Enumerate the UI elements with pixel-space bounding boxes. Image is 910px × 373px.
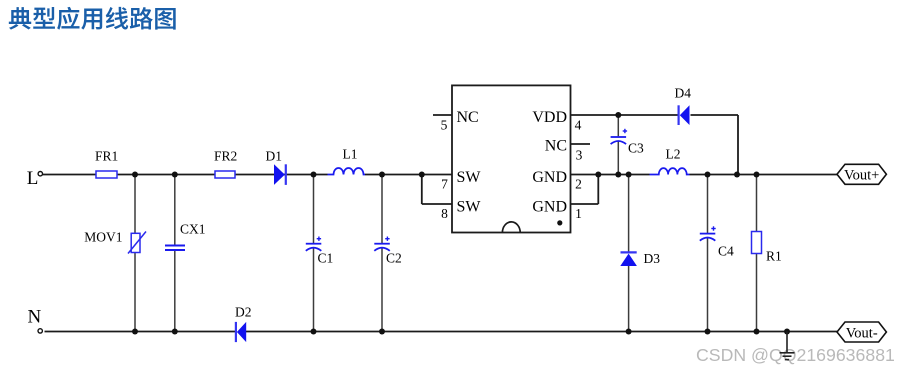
svg-text:8: 8 [441, 206, 448, 221]
svg-text:3: 3 [576, 148, 583, 163]
svg-text:L1: L1 [343, 147, 358, 162]
svg-text:CX1: CX1 [180, 222, 206, 237]
svg-text:D1: D1 [266, 149, 283, 164]
svg-text:2: 2 [575, 177, 582, 192]
svg-text:L2: L2 [666, 147, 681, 162]
svg-text:C2: C2 [386, 251, 402, 266]
svg-text:SW: SW [457, 199, 482, 216]
svg-text:7: 7 [441, 177, 448, 192]
svg-text:C3: C3 [628, 141, 644, 156]
svg-text:L: L [27, 168, 39, 189]
svg-text:D2: D2 [235, 305, 252, 320]
svg-text:FR1: FR1 [95, 149, 118, 164]
svg-text:C1: C1 [318, 251, 334, 266]
svg-text:VDD: VDD [532, 109, 567, 126]
svg-text:N: N [28, 307, 42, 328]
svg-text:Vout-: Vout- [846, 325, 878, 341]
svg-text:D3: D3 [644, 251, 661, 266]
svg-text:典型应用线路图: 典型应用线路图 [8, 0, 177, 34]
svg-text:C4: C4 [718, 244, 734, 259]
svg-text:4: 4 [575, 117, 582, 132]
svg-text:GND: GND [532, 199, 567, 216]
svg-text:SW: SW [457, 169, 482, 186]
svg-text:MOV1: MOV1 [84, 230, 122, 245]
svg-text:NC: NC [545, 138, 567, 155]
svg-text:Vout+: Vout+ [844, 168, 879, 184]
svg-text:5: 5 [441, 117, 448, 132]
svg-text:1: 1 [575, 206, 582, 221]
svg-text:NC: NC [457, 109, 479, 126]
svg-text:D4: D4 [675, 86, 692, 101]
svg-text:CSDN @QQ2169636881: CSDN @QQ2169636881 [696, 345, 895, 365]
svg-text:R1: R1 [766, 249, 782, 264]
svg-text:GND: GND [532, 169, 567, 186]
svg-text:FR2: FR2 [214, 149, 237, 164]
